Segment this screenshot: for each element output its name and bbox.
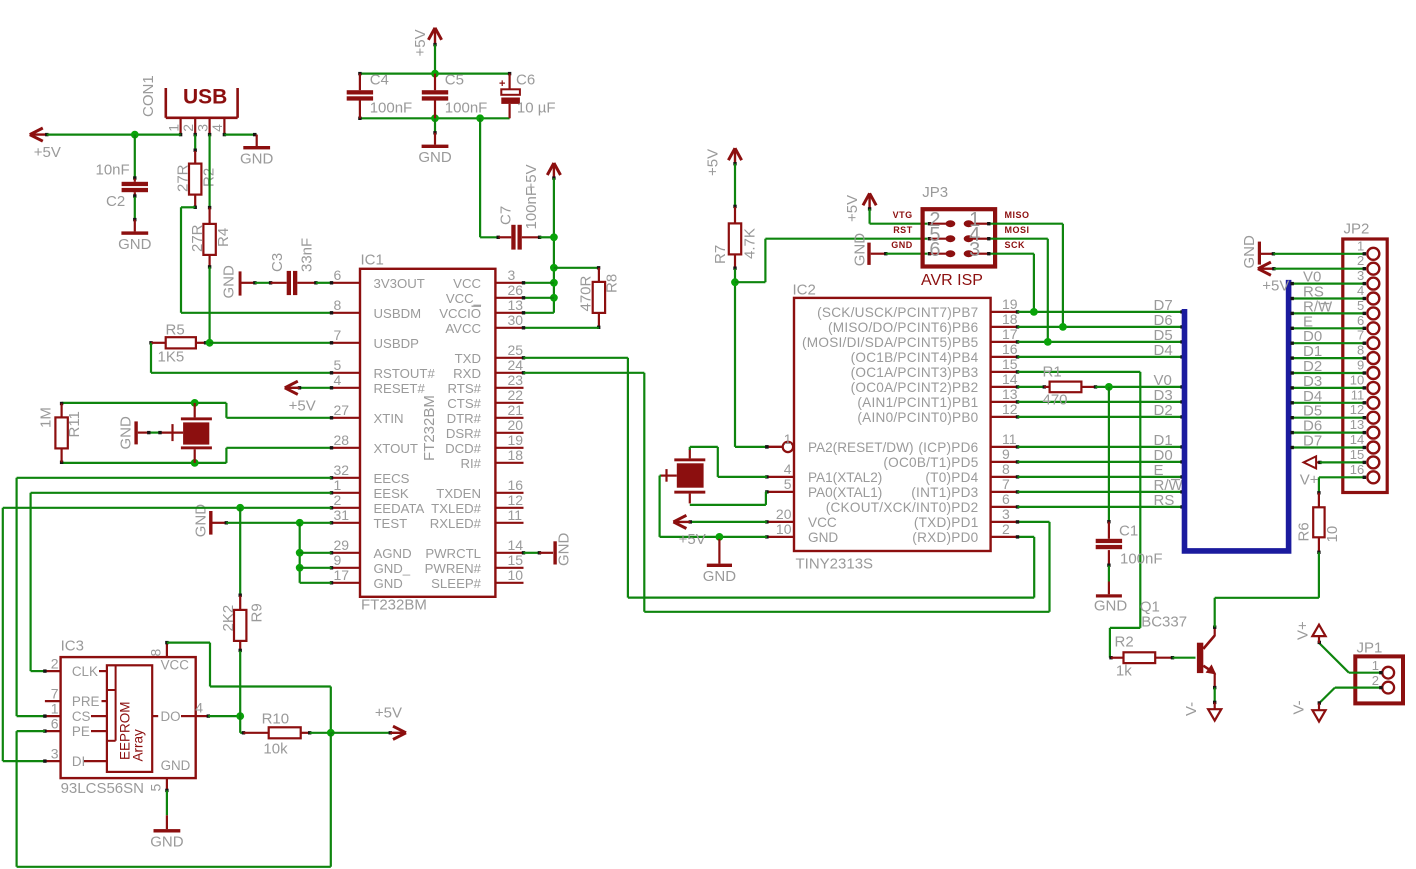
- svg-text:10 µF: 10 µF: [517, 100, 556, 117]
- svg-text:27R: 27R: [189, 224, 206, 252]
- svg-text:IC1: IC1: [361, 252, 384, 269]
- svg-text:7: 7: [1002, 476, 1010, 492]
- svg-text:10nF: 10nF: [96, 162, 130, 179]
- svg-text:MISO: MISO: [1005, 210, 1030, 220]
- svg-text:MOSI: MOSI: [1005, 225, 1030, 235]
- svg-text:4: 4: [334, 372, 342, 388]
- svg-text:30: 30: [508, 312, 524, 328]
- svg-text:RXD: RXD: [453, 366, 481, 381]
- svg-text:(OC0B/T1)PD5: (OC0B/T1)PD5: [883, 455, 978, 470]
- svg-text:EEDATA: EEDATA: [374, 501, 425, 516]
- svg-text:FT232BM: FT232BM: [361, 597, 427, 614]
- svg-text:TXD: TXD: [455, 351, 481, 366]
- svg-text:USBDM: USBDM: [374, 306, 422, 321]
- svg-text:5: 5: [334, 357, 342, 373]
- svg-text:+5V: +5V: [34, 144, 61, 161]
- svg-text:TINY2313S: TINY2313S: [796, 556, 874, 573]
- svg-text:2K2: 2K2: [220, 605, 237, 632]
- svg-text:(TXD)PD1: (TXD)PD1: [914, 515, 979, 530]
- svg-text:16: 16: [508, 477, 524, 493]
- svg-text:GND: GND: [240, 150, 274, 167]
- svg-text:PA1(XTAL2): PA1(XTAL2): [808, 470, 882, 485]
- svg-text:20: 20: [508, 417, 524, 433]
- svg-text:(OC0A/PCINT2)PB2: (OC0A/PCINT2)PB2: [851, 380, 979, 395]
- svg-text:15: 15: [508, 552, 524, 568]
- svg-text:6: 6: [334, 267, 342, 283]
- svg-text:JP1: JP1: [1357, 640, 1383, 657]
- svg-text:6: 6: [1002, 491, 1010, 507]
- svg-text:11: 11: [1002, 431, 1017, 447]
- svg-text:DI: DI: [72, 754, 85, 769]
- svg-text:VTG: VTG: [893, 210, 913, 220]
- svg-text:25: 25: [508, 342, 524, 358]
- svg-text:11: 11: [1351, 387, 1365, 402]
- svg-text:(MISO/DO/PCINT6)PB6: (MISO/DO/PCINT6)PB6: [828, 320, 979, 335]
- svg-text:XTOUT: XTOUT: [374, 441, 418, 456]
- svg-text:GND: GND: [703, 568, 737, 585]
- svg-text:17: 17: [1002, 326, 1018, 342]
- svg-text:28: 28: [334, 432, 350, 448]
- svg-text:VCC_: VCC_: [446, 291, 482, 306]
- svg-text:4: 4: [195, 700, 203, 716]
- svg-text:18: 18: [508, 447, 524, 463]
- svg-text:C3: C3: [269, 253, 286, 272]
- svg-text:CON1: CON1: [140, 75, 157, 117]
- svg-text:R1: R1: [1043, 364, 1062, 381]
- svg-text:31: 31: [334, 507, 350, 523]
- svg-text:V-: V-: [1183, 702, 1200, 716]
- svg-text:3: 3: [969, 239, 980, 261]
- svg-text:(AIN0/PCINT0)PB0: (AIN0/PCINT0)PB0: [857, 410, 978, 425]
- svg-text:14: 14: [1002, 371, 1018, 387]
- svg-text:(OC1A/PCINT3)PB3: (OC1A/PCINT3)PB3: [851, 365, 979, 380]
- svg-text:CLK: CLK: [72, 664, 98, 679]
- svg-text:GND: GND: [556, 533, 573, 567]
- svg-text:VCCIO: VCCIO: [439, 306, 481, 321]
- svg-text:R10: R10: [262, 711, 290, 728]
- svg-text:100nF: 100nF: [1120, 551, 1163, 568]
- svg-text:FT232BM: FT232BM: [421, 395, 438, 461]
- svg-text:13: 13: [1002, 386, 1018, 402]
- svg-text:5: 5: [148, 784, 164, 792]
- svg-text:TXDEN: TXDEN: [436, 486, 481, 501]
- svg-text:19: 19: [508, 432, 524, 448]
- svg-text:EESK: EESK: [374, 486, 409, 501]
- svg-text:10: 10: [1350, 372, 1364, 387]
- svg-text:XTIN: XTIN: [374, 411, 404, 426]
- svg-text:IC2: IC2: [793, 282, 816, 299]
- svg-text:JP2: JP2: [1344, 221, 1370, 238]
- svg-text:470R: 470R: [578, 275, 595, 311]
- svg-text:+5V: +5V: [523, 164, 540, 191]
- svg-text:GND: GND: [118, 416, 135, 450]
- svg-text:1: 1: [165, 124, 181, 132]
- svg-text:USBDP: USBDP: [374, 336, 420, 351]
- svg-text:+5V: +5V: [705, 149, 722, 176]
- svg-text:GND: GND: [161, 758, 191, 773]
- svg-text:1K5: 1K5: [158, 349, 185, 366]
- svg-text:SCK: SCK: [1005, 240, 1026, 250]
- svg-text:GND: GND: [374, 576, 403, 591]
- svg-text:GND: GND: [220, 265, 237, 299]
- svg-text:9: 9: [334, 552, 342, 568]
- svg-text:R6: R6: [1296, 522, 1313, 541]
- svg-text:R5: R5: [166, 322, 185, 339]
- svg-text:USB: USB: [183, 86, 227, 109]
- svg-text:8: 8: [334, 297, 342, 313]
- svg-text:(AIN1/PCINT1)PB1: (AIN1/PCINT1)PB1: [857, 395, 978, 410]
- svg-text:+5V: +5V: [1262, 278, 1289, 295]
- svg-text:RTS#: RTS#: [448, 381, 482, 396]
- svg-text:V+: V+: [1300, 472, 1319, 489]
- svg-text:12: 12: [1002, 401, 1018, 417]
- svg-text:GND: GND: [891, 240, 913, 250]
- svg-text:BC337: BC337: [1141, 614, 1187, 631]
- svg-text:6: 6: [929, 239, 940, 261]
- svg-text:TEST: TEST: [374, 516, 408, 531]
- svg-text:2: 2: [51, 656, 59, 672]
- svg-text:DTR#: DTR#: [447, 411, 482, 426]
- svg-text:(OC1B/PCINT4)PB4: (OC1B/PCINT4)PB4: [851, 350, 979, 365]
- svg-text:(CKOUT/XCK/INT0)PD2: (CKOUT/XCK/INT0)PD2: [826, 500, 979, 515]
- svg-text:1M: 1M: [37, 407, 54, 428]
- svg-text:EECS: EECS: [374, 471, 410, 486]
- svg-text:D4: D4: [1154, 342, 1173, 359]
- svg-text:VCC: VCC: [453, 276, 481, 291]
- svg-text:1: 1: [51, 701, 59, 717]
- svg-text:DSR#: DSR#: [446, 426, 482, 441]
- svg-text:8: 8: [1002, 461, 1010, 477]
- svg-text:10k: 10k: [263, 741, 288, 758]
- svg-text:20: 20: [776, 506, 792, 522]
- svg-text:1k: 1k: [1116, 663, 1132, 680]
- svg-text:+: +: [499, 78, 505, 90]
- svg-text:2: 2: [1372, 673, 1379, 688]
- svg-text:IC3: IC3: [61, 638, 84, 655]
- svg-text:22: 22: [508, 387, 524, 403]
- svg-text:+5V: +5V: [412, 29, 429, 56]
- svg-text:13: 13: [508, 297, 524, 313]
- svg-text:21: 21: [508, 402, 524, 418]
- svg-text:GND_: GND_: [374, 561, 411, 576]
- svg-text:R8: R8: [604, 274, 621, 293]
- svg-text:R2: R2: [1115, 634, 1134, 651]
- svg-text:10: 10: [508, 567, 524, 583]
- svg-text:+5V: +5V: [679, 531, 706, 548]
- svg-text:C5: C5: [445, 72, 464, 89]
- svg-text:VCC: VCC: [808, 515, 837, 530]
- svg-text:AVR ISP: AVR ISP: [921, 272, 983, 289]
- svg-text:4: 4: [209, 124, 225, 132]
- svg-text:R4: R4: [215, 228, 232, 247]
- svg-text:33nF: 33nF: [298, 238, 315, 272]
- svg-text:V+: V+: [1294, 621, 1311, 640]
- svg-text:RI#: RI#: [460, 456, 481, 471]
- svg-text:11: 11: [508, 507, 523, 523]
- svg-text:3: 3: [194, 124, 210, 132]
- svg-text:12: 12: [508, 492, 524, 508]
- svg-text:29: 29: [334, 537, 350, 553]
- svg-text:PWRCTL: PWRCTL: [425, 546, 481, 561]
- svg-text:SLEEP#: SLEEP#: [431, 576, 482, 591]
- svg-text:RSTOUT#: RSTOUT#: [374, 366, 436, 381]
- svg-text:+5V: +5V: [375, 705, 402, 722]
- svg-text:26: 26: [508, 282, 524, 298]
- svg-text:C2: C2: [106, 193, 125, 210]
- svg-text:RS: RS: [1154, 492, 1175, 509]
- svg-text:GND: GND: [1094, 598, 1128, 615]
- svg-text:D7: D7: [1303, 433, 1322, 450]
- svg-text:GND: GND: [1241, 235, 1258, 269]
- svg-text:27R: 27R: [175, 164, 192, 192]
- svg-text:9: 9: [1002, 446, 1010, 462]
- svg-text:DO: DO: [161, 709, 181, 724]
- svg-text:7: 7: [334, 327, 342, 343]
- svg-text:14: 14: [1350, 432, 1364, 447]
- svg-text:15: 15: [1002, 356, 1018, 372]
- svg-text:27: 27: [334, 402, 350, 418]
- svg-text:RXLED#: RXLED#: [430, 516, 482, 531]
- svg-text:C6: C6: [516, 72, 535, 89]
- svg-text:(SCK/USCK/PCINT7)PB7: (SCK/USCK/PCINT7)PB7: [817, 305, 978, 320]
- svg-text:4.7K: 4.7K: [742, 228, 759, 259]
- svg-text:R9: R9: [249, 603, 266, 622]
- svg-text:CS: CS: [72, 709, 91, 724]
- svg-text:PE: PE: [72, 724, 90, 739]
- svg-text:CTS#: CTS#: [447, 396, 481, 411]
- svg-text:Array: Array: [130, 729, 145, 762]
- svg-text:100nF: 100nF: [523, 187, 540, 230]
- svg-text:JP3: JP3: [922, 184, 948, 201]
- svg-text:8: 8: [148, 649, 164, 657]
- svg-text:2: 2: [1002, 521, 1010, 537]
- svg-text:3: 3: [508, 267, 516, 283]
- svg-text:GND: GND: [418, 149, 452, 166]
- svg-text:12: 12: [1350, 402, 1364, 417]
- svg-text:AVCC: AVCC: [445, 321, 481, 336]
- svg-text:1: 1: [1357, 238, 1364, 253]
- svg-text:3: 3: [1002, 506, 1010, 522]
- svg-text:R11: R11: [66, 411, 83, 437]
- svg-text:PA0(XTAL1): PA0(XTAL1): [808, 485, 882, 500]
- svg-text:GND: GND: [150, 834, 184, 851]
- svg-text:1: 1: [334, 477, 342, 493]
- svg-text:(RXD)PD0: (RXD)PD0: [912, 530, 978, 545]
- svg-text:15: 15: [1350, 447, 1364, 462]
- svg-text:PRE: PRE: [72, 694, 100, 709]
- svg-text:18: 18: [1002, 311, 1018, 327]
- svg-text:16: 16: [1350, 462, 1364, 477]
- svg-text:GND: GND: [118, 236, 152, 253]
- svg-text:VCC: VCC: [161, 658, 190, 673]
- svg-text:100nF: 100nF: [370, 100, 413, 117]
- svg-text:RESET#: RESET#: [374, 381, 426, 396]
- svg-text:1: 1: [1372, 658, 1379, 673]
- svg-text:V-: V-: [1290, 700, 1307, 714]
- svg-text:10: 10: [1324, 526, 1341, 543]
- svg-text:DCD#: DCD#: [445, 441, 482, 456]
- svg-text:17: 17: [334, 567, 350, 583]
- svg-text:13: 13: [1350, 417, 1364, 432]
- svg-text:R7: R7: [712, 245, 729, 264]
- svg-text:2: 2: [334, 492, 342, 508]
- svg-text:32: 32: [334, 462, 350, 478]
- svg-text:AGND: AGND: [374, 546, 412, 561]
- svg-text:5: 5: [784, 476, 792, 492]
- svg-text:10: 10: [776, 521, 792, 537]
- svg-text:19: 19: [1002, 296, 1018, 312]
- svg-text:RST: RST: [893, 225, 913, 235]
- svg-text:GND: GND: [808, 530, 838, 545]
- svg-text:C7: C7: [497, 206, 514, 225]
- svg-text:93LCS56SN: 93LCS56SN: [61, 780, 144, 797]
- svg-text:C4: C4: [370, 72, 389, 89]
- svg-text:C1: C1: [1119, 523, 1138, 540]
- svg-text:+5V: +5V: [844, 195, 861, 222]
- svg-text:100nF: 100nF: [445, 100, 488, 117]
- svg-text:(MOSI/DI/SDA/PCINT5)PB5: (MOSI/DI/SDA/PCINT5)PB5: [802, 335, 978, 350]
- svg-text:14: 14: [508, 537, 524, 553]
- svg-text:(ICP)PD6: (ICP)PD6: [918, 440, 978, 455]
- svg-text:470: 470: [1043, 392, 1068, 409]
- svg-text:16: 16: [1002, 341, 1018, 357]
- svg-text:TXLED#: TXLED#: [431, 501, 482, 516]
- svg-text:GND: GND: [852, 233, 869, 267]
- svg-text:24: 24: [508, 357, 524, 373]
- svg-text:D2: D2: [1154, 402, 1173, 419]
- svg-text:4: 4: [784, 461, 792, 477]
- svg-text:1: 1: [784, 431, 792, 447]
- svg-text:+5V: +5V: [289, 398, 316, 415]
- svg-text:3: 3: [51, 746, 59, 762]
- svg-text:3V3OUT: 3V3OUT: [374, 276, 425, 291]
- svg-text:7: 7: [51, 686, 59, 702]
- svg-text:PA2(RESET/DW): PA2(RESET/DW): [808, 440, 913, 455]
- svg-text:PWREN#: PWREN#: [425, 561, 482, 576]
- svg-text:(INT1)PD3: (INT1)PD3: [911, 485, 978, 500]
- svg-text:23: 23: [508, 372, 524, 388]
- svg-text:6: 6: [51, 716, 59, 732]
- svg-text:(T0)PD4: (T0)PD4: [925, 470, 978, 485]
